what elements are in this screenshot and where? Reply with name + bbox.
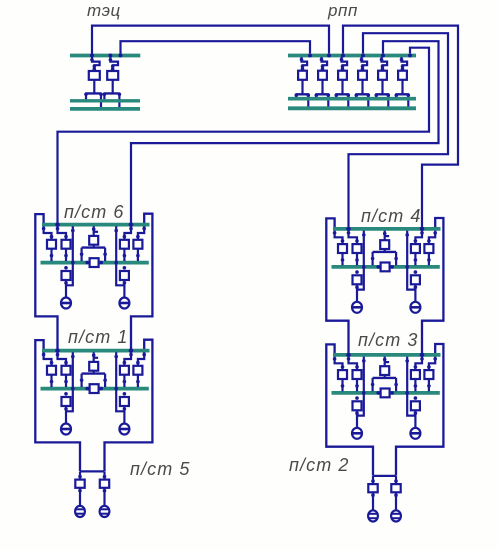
wire п/ст 2 tie bar bbox=[373, 475, 396, 477]
п/ст 1 feeder 1: disconnector + breaker bbox=[42, 352, 56, 387]
wire п/ст 6 supply-through cable left bracket bbox=[35, 214, 57, 350]
РПП bus tap junction x=343 bbox=[341, 54, 345, 58]
busbar п/ст 6 distribution bus bbox=[41, 261, 149, 265]
РПП bus tap junction x=383 bbox=[381, 54, 385, 58]
wire п/ст 6 supply-through cable right bracket bbox=[131, 214, 152, 350]
РПП bus tap junction x=310 bbox=[308, 54, 312, 58]
svg-text:п/ст 5: п/ст 5 bbox=[130, 459, 191, 479]
п/ст 1 feed junction right bbox=[129, 348, 134, 353]
п/ст 4 feed junction right bbox=[420, 227, 425, 232]
svg-text:п/ст 1: п/ст 1 bbox=[68, 327, 129, 347]
п/ст 3 feeder 3: disconnector + breaker + transformer branch to motor bbox=[410, 357, 423, 439]
РПП bus tap junction x=329 bbox=[327, 54, 331, 58]
busbar ТЭЦ LV bus section 1 bbox=[70, 99, 140, 102]
РПП feeder 2: disconnector + breaker + bus ties bbox=[315, 57, 331, 108]
п/ст 3 bus junction left bbox=[376, 391, 380, 395]
wire п/ст 5 tie bar bbox=[80, 470, 105, 472]
п/ст 3 feed junction left bbox=[346, 353, 351, 358]
п/ст 1 bypass wire right bbox=[114, 352, 124, 411]
п/ст 4 bypass wire left bbox=[357, 231, 366, 290]
svg-text:рпп: рпп bbox=[327, 1, 358, 20]
п/ст 1 bus junction left bbox=[85, 387, 89, 391]
svg-text:тэц: тэц bbox=[87, 1, 121, 20]
п/ст 3 feeder 2: disconnector + breaker + transformer branch to motor bbox=[347, 357, 362, 439]
п/ст 1 bus junction right bbox=[99, 387, 103, 391]
п/ст 4 feed junction left bbox=[346, 227, 351, 232]
РПП feeder 1: disconnector + breaker + bus ties bbox=[295, 57, 311, 108]
ТЭЦ generator feeder 2: disconnector + breaker + bus ties bbox=[103, 57, 122, 109]
п/ст 4 feeder 1: disconnector + breaker bbox=[333, 231, 347, 266]
п/ст 5 feeder 2: breaker + motor bbox=[100, 471, 110, 517]
svg-text:п/ст 2: п/ст 2 bbox=[289, 455, 350, 475]
п/ст 3 feeder 4: disconnector + breaker bbox=[424, 357, 437, 392]
п/ст 3 feeder 1: disconnector + breaker bbox=[333, 357, 347, 392]
busbar п/ст 4 receiving bus bbox=[333, 227, 441, 231]
п/ст 1 feeder 2: disconnector + breaker + transformer branch to motor bbox=[56, 352, 71, 434]
ТЭЦ generator feeder 1: disconnector + breaker + bus ties bbox=[84, 57, 103, 109]
п/ст 6 bus junction right bbox=[99, 261, 103, 265]
busbar ТЭЦ LV bus section 2 bbox=[70, 107, 140, 111]
п/ст 6 feeder 3: disconnector + breaker + transformer branch to motor bbox=[119, 226, 132, 308]
п/ст 4 sectionalizing breaker assembly bbox=[371, 231, 398, 266]
п/ст 6 bypass wire left bbox=[66, 226, 75, 285]
п/ст 1 bus sectional breaker bbox=[90, 384, 99, 393]
п/ст 6 feed junction left bbox=[55, 222, 60, 227]
busbar п/ст 4 distribution bus bbox=[332, 265, 440, 269]
п/ст 6 feeder 2: disconnector + breaker + transformer branch to motor bbox=[56, 226, 71, 308]
п/ст 6 bus sectional breaker bbox=[90, 258, 99, 267]
svg-text:п/ст 3: п/ст 3 bbox=[358, 330, 419, 350]
busbar п/ст 3 distribution bus bbox=[332, 391, 440, 395]
п/ст 6 sectionalizing breaker assembly bbox=[80, 226, 107, 261]
п/ст 1 bypass wire left bbox=[66, 352, 75, 411]
РПП bus tap junction x=363 bbox=[361, 54, 365, 58]
п/ст 2 feeder 2: breaker + motor bbox=[391, 476, 401, 522]
busbar п/ст 1 receiving bus bbox=[42, 349, 150, 353]
п/ст 4 bus sectional breaker bbox=[381, 263, 390, 272]
п/ст 3 bypass wire left bbox=[357, 357, 366, 416]
п/ст 4 bus junction left bbox=[376, 265, 380, 269]
п/ст 6 feeder 4: disconnector + breaker bbox=[133, 226, 146, 261]
ТЭЦ bus tap junction feeder2 bbox=[108, 54, 112, 58]
wire cable 3: РПП to п/ст 6 right feed bbox=[131, 41, 439, 223]
wire cable 2: РПП to п/ст 4 left feed bbox=[349, 33, 449, 227]
busbar ТЭЦ HV bus bbox=[70, 54, 140, 58]
busbar п/ст 6 receiving bus bbox=[42, 223, 150, 227]
п/ст 1 sectionalizing breaker assembly bbox=[80, 352, 107, 387]
РПП feeder 5: disconnector + breaker + bus ties bbox=[375, 57, 391, 108]
п/ст 4 feeder 4: disconnector + breaker bbox=[424, 231, 437, 266]
п/ст 3 sectionalizing breaker assembly bbox=[371, 357, 398, 392]
РПП bus tap junction x=410 bbox=[408, 54, 412, 58]
busbar РПП HV bus bbox=[288, 54, 416, 58]
wire п/ст 4 supply-through cable right bracket bbox=[422, 218, 443, 354]
wire п/ст 3 supply-through cable left bracket bbox=[326, 344, 373, 475]
РПП feeder 6: disconnector + breaker + bus ties bbox=[395, 57, 411, 108]
п/ст 1 feeder 3: disconnector + breaker + transformer branch to motor bbox=[119, 352, 132, 434]
п/ст 6 feed junction right bbox=[129, 222, 134, 227]
wire п/ст 1 supply-through cable left bracket bbox=[35, 340, 80, 471]
п/ст 5 feeder 1: breaker + motor bbox=[75, 471, 85, 517]
svg-text:п/ст 6: п/ст 6 bbox=[64, 202, 125, 222]
wire п/ст 1 supply-through cable right bracket bbox=[105, 340, 153, 471]
п/ст 3 bypass wire right bbox=[405, 357, 415, 416]
п/ст 6 feeder 1: disconnector + breaker bbox=[42, 226, 56, 261]
п/ст 6 bypass wire right bbox=[114, 226, 124, 285]
busbar п/ст 3 receiving bus bbox=[333, 353, 441, 357]
РПП feeder 4: disconnector + breaker + bus ties bbox=[355, 57, 371, 108]
п/ст 3 bus junction right bbox=[390, 391, 394, 395]
wire cable 4: РПП to п/ст 6 left feed bbox=[58, 48, 430, 223]
busbar п/ст 1 distribution bus bbox=[41, 387, 149, 391]
п/ст 2 feeder 1: breaker + motor bbox=[368, 476, 378, 522]
wire п/ст 3 supply-through cable right bracket bbox=[396, 344, 443, 476]
ТЭЦ bus tap junction feeder1/line A bbox=[90, 54, 94, 58]
п/ст 4 bypass wire right bbox=[405, 231, 415, 290]
wire п/ст 4 supply-through cable left bracket bbox=[326, 218, 348, 354]
busbar РПП LV bus section 2 bbox=[288, 106, 416, 110]
п/ст 6 bus junction left bbox=[85, 261, 89, 265]
РПП feeder 3: disconnector + breaker + bus ties bbox=[335, 57, 351, 108]
п/ст 4 bus junction right bbox=[390, 265, 394, 269]
п/ст 3 bus sectional breaker bbox=[381, 389, 390, 398]
svg-text:п/ст 4: п/ст 4 bbox=[361, 206, 422, 226]
busbar РПП LV bus section 1 bbox=[288, 97, 416, 101]
wire line A: ТЭЦ feeder1 to РПП bus bbox=[92, 26, 329, 55]
п/ст 1 feeder 4: disconnector + breaker bbox=[133, 352, 146, 387]
п/ст 4 feeder 3: disconnector + breaker + transformer branch to motor bbox=[410, 231, 423, 313]
п/ст 3 feed junction right bbox=[420, 353, 425, 358]
п/ст 4 feeder 2: disconnector + breaker + transformer branch to motor bbox=[347, 231, 362, 313]
п/ст 1 feed junction left bbox=[55, 348, 60, 353]
wire cable 1: РПП to п/ст 4 right feed bbox=[343, 26, 458, 228]
ТЭЦ bus tap junction line B bbox=[119, 54, 123, 58]
wire line B: ТЭЦ bus tap to РПП bus bbox=[121, 41, 311, 55]
